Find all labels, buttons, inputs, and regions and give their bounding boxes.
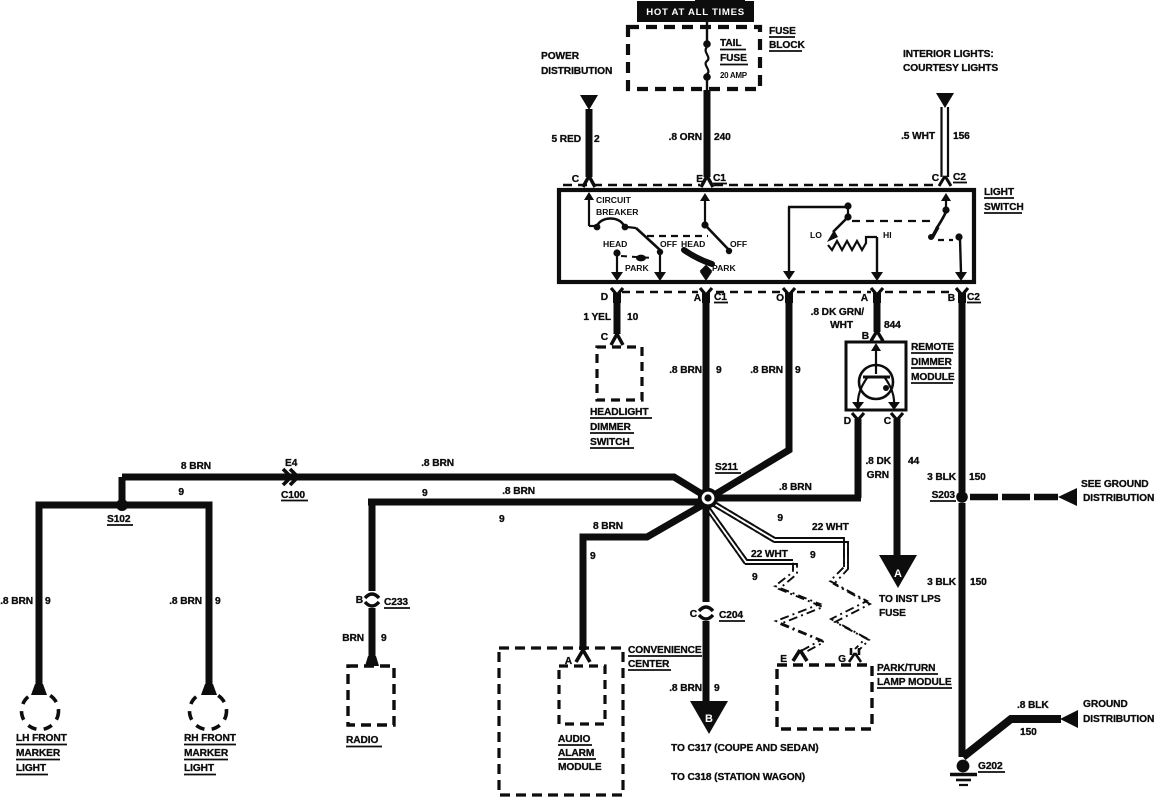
svg-text:ALARM: ALARM (558, 748, 594, 759)
interior lights courtesy lights label (903, 49, 998, 74)
svg-text:C233: C233 (384, 597, 408, 608)
output pin O (776, 288, 795, 304)
wire PARK to A C1 output (700, 272, 712, 281)
wire HI to A output (871, 237, 883, 281)
wire S102 to RH front marker light (122, 505, 221, 687)
splice node S211 overlay (698, 488, 718, 508)
svg-text:9: 9 (45, 596, 51, 607)
connector pin B (remote dimmer module) (862, 331, 883, 342)
svg-text:9: 9 (714, 683, 720, 694)
svg-text:D: D (844, 416, 851, 427)
svg-text:C2: C2 (967, 292, 980, 303)
interior lights switch blade (928, 212, 946, 240)
svg-text:1 YEL: 1 YEL (583, 312, 611, 323)
power distribution label (541, 51, 612, 77)
svg-text:9: 9 (215, 596, 221, 607)
svg-text:C: C (884, 416, 892, 427)
wire .5 WHT 156 (double line) (901, 107, 970, 177)
svg-text:C2: C2 (953, 172, 966, 183)
svg-text:.8 BRN: .8 BRN (669, 365, 702, 376)
svg-text:9: 9 (422, 488, 428, 499)
svg-text:PARK: PARK (712, 263, 737, 273)
svg-text:DIMMER: DIMMER (911, 357, 952, 368)
switch 2 pivot (701, 221, 708, 228)
ground G202 (950, 760, 1005, 785)
svg-text:BLOCK: BLOCK (769, 40, 805, 51)
svg-text:TAIL: TAIL (720, 38, 741, 49)
wire 22 WHT 9 (S211 to park/turn lamp module G) (712, 501, 870, 651)
wire from pin C1 into switch 2 (700, 193, 710, 223)
svg-text:D: D (601, 292, 608, 303)
output pin A C1 (694, 288, 728, 304)
svg-text:9: 9 (716, 365, 722, 376)
connector pin C C2 (932, 172, 967, 186)
svg-text:CONVENIENCE: CONVENIENCE (628, 645, 702, 656)
svg-text:C: C (572, 174, 580, 185)
svg-text:SEE GROUND: SEE GROUND (1081, 479, 1149, 490)
wire BRN 9 (C233 to radio) (342, 608, 387, 666)
hot at all times bus bar (637, 0, 754, 22)
svg-text:C100: C100 (281, 490, 305, 501)
tail fuse 20 amp (703, 22, 748, 90)
svg-text:20 AMP: 20 AMP (720, 71, 748, 80)
svg-text:LAMP MODULE: LAMP MODULE (877, 677, 952, 688)
svg-text:C1: C1 (713, 173, 726, 184)
svg-text:.8 DK: .8 DK (865, 456, 891, 467)
switch 2 OFF contact (726, 239, 747, 254)
wire .8 BLK 150 (to ground distribution) (963, 699, 1154, 757)
svg-text:MARKER: MARKER (184, 748, 229, 759)
svg-text:B: B (948, 293, 955, 304)
svg-text:22 WHT: 22 WHT (751, 549, 789, 560)
svg-text:22 WHT: 22 WHT (812, 522, 850, 533)
wire 8 BRN 9 (S211 to S102 via C100) (122, 458, 705, 499)
svg-text:156: 156 (953, 131, 970, 142)
svg-text:PARK/TURN: PARK/TURN (877, 663, 935, 674)
wire 3 BLK 150 (S203 to G202) (927, 503, 987, 757)
wire .8 BRN 9 (O down to S211) (711, 300, 801, 497)
svg-text:C204: C204 (719, 610, 743, 621)
wire .8 BRN 9 (S211 to remote dimmer D) (708, 482, 861, 524)
svg-text:.8 BRN: .8 BRN (669, 683, 702, 694)
switch 2 PARK contact (700, 263, 737, 277)
svg-text:PARK: PARK (625, 263, 650, 273)
rheostat wiper blade LO (810, 219, 846, 242)
switch 2 blade to OFF (706, 226, 728, 249)
convenience center box (499, 645, 702, 795)
splice node S211 (698, 462, 741, 508)
off-page connector B (690, 701, 728, 734)
wire remote dimmer D to S211 run (855, 419, 862, 498)
svg-text:BREAKER: BREAKER (596, 207, 639, 217)
svg-text:AUDIO: AUDIO (558, 734, 591, 745)
svg-text:8 BRN: 8 BRN (181, 461, 211, 472)
switch 1 HEAD contact (603, 239, 627, 257)
svg-text:POWER: POWER (541, 51, 580, 62)
wire contact to B C2 output (955, 239, 967, 281)
park/turn lamp module box (777, 663, 952, 729)
svg-text:C: C (601, 332, 609, 343)
output pin A (dimmer feed) (861, 288, 883, 304)
svg-text:O: O (776, 293, 784, 304)
wire 8 BRN 9 (S211 to audio alarm module) (583, 503, 706, 650)
svg-text:GRN: GRN (867, 470, 889, 481)
wire .8 ORN 240 (669, 90, 732, 177)
svg-text:B: B (862, 331, 869, 342)
svg-text:HEADLIGHT: HEADLIGHT (590, 407, 649, 418)
circuit breaker (589, 195, 639, 230)
svg-text:FUSE: FUSE (720, 53, 747, 64)
output pin B C2 (948, 288, 981, 304)
fuse block box (628, 26, 805, 89)
svg-text:S211: S211 (715, 462, 738, 473)
svg-text:150: 150 (970, 577, 987, 588)
svg-text:.8 DK GRN/: .8 DK GRN/ (811, 307, 865, 318)
svg-text:MODULE: MODULE (558, 762, 602, 773)
svg-text:BRN: BRN (342, 633, 364, 644)
svg-text:REMOTE: REMOTE (911, 342, 954, 353)
svg-text:44: 44 (908, 456, 920, 467)
switch 2 thick blade to PARK (684, 250, 712, 264)
svg-text:.8 BRN: .8 BRN (169, 596, 202, 607)
svg-text:.8 BRN: .8 BRN (421, 458, 454, 469)
interior lights feed arrow (936, 93, 954, 108)
wire HEAD contact to D output (611, 255, 623, 281)
svg-text:GROUND: GROUND (1083, 699, 1128, 710)
svg-text:9: 9 (752, 572, 758, 583)
svg-text:LIGHT: LIGHT (16, 763, 47, 774)
connector row dashed line (bottom of light switch) (622, 291, 955, 293)
audio alarm module box (558, 666, 605, 773)
wire O output up to dimmer rheostat (783, 207, 848, 280)
switch 1 blade (head/off/park) (636, 228, 660, 250)
svg-text:OFF: OFF (660, 239, 677, 249)
svg-text:E4: E4 (285, 458, 298, 469)
svg-text:.8 BRN: .8 BRN (502, 486, 535, 497)
svg-text:150: 150 (969, 472, 986, 483)
svg-text:240: 240 (714, 132, 731, 143)
radio box (346, 666, 394, 747)
svg-text:9: 9 (795, 365, 801, 376)
wire from pin C into circuit breaker (584, 192, 594, 226)
svg-text:LIGHT: LIGHT (984, 187, 1015, 198)
connector E4 C100 (281, 458, 308, 501)
wire .8 DK GRN 44 (remote dimmer C to inst lps fuse) (865, 419, 919, 557)
output pin D (601, 288, 623, 303)
svg-text:.8 BRN: .8 BRN (0, 596, 33, 607)
svg-text:9: 9 (777, 513, 783, 524)
connector pin G (park/turn lamp module) (838, 648, 861, 665)
svg-text:9: 9 (499, 514, 505, 525)
svg-text:DISTRIBUTION: DISTRIBUTION (541, 66, 612, 77)
svg-text:MODULE: MODULE (911, 372, 955, 383)
svg-text:COURTESY LIGHTS: COURTESY LIGHTS (903, 63, 998, 74)
svg-text:RADIO: RADIO (346, 735, 379, 746)
interior lights switch pivot (942, 206, 949, 213)
svg-text:DIMMER: DIMMER (590, 422, 631, 433)
svg-text:.5 WHT: .5 WHT (901, 131, 936, 142)
output pin D (remote dimmer module) (844, 413, 864, 427)
svg-text:A: A (894, 568, 902, 580)
svg-text:9: 9 (810, 550, 816, 561)
wire to ground distribution (dashed) (970, 479, 1154, 506)
switch 1 OFF contact (657, 239, 677, 255)
splice node S203 (930, 490, 968, 503)
svg-text:C: C (932, 173, 940, 184)
svg-text:B: B (356, 595, 363, 606)
wire .8 DK GRN/WHT 844 (A to remote dimmer module) (811, 300, 901, 332)
wire .8 BRN 9 (S211 to C204) (703, 503, 710, 602)
svg-text:.8 BRN: .8 BRN (750, 365, 783, 376)
connector pin A (audio alarm module) (565, 650, 590, 667)
svg-text:LIGHT: LIGHT (184, 763, 215, 774)
svg-text:C1: C1 (714, 292, 727, 303)
RH front marker light lamp (184, 684, 237, 775)
svg-text:LO: LO (810, 230, 822, 240)
wire 3 BLK 150 (B C2 to S203) (927, 300, 986, 492)
connector C C204 (690, 607, 745, 621)
splice node S102 (107, 477, 133, 525)
svg-text:9: 9 (178, 487, 184, 498)
rheostat resistor element (828, 230, 892, 250)
svg-text:TO INST LPS: TO INST LPS (879, 594, 941, 605)
svg-text:DISTRIBUTION: DISTRIBUTION (1083, 493, 1154, 504)
svg-text:CENTER: CENTER (628, 659, 670, 670)
power distribution arrow (580, 95, 598, 110)
rheostat input contacts (844, 202, 851, 220)
svg-text:LH FRONT: LH FRONT (16, 733, 68, 744)
wire S102 to LH front marker light (0, 505, 128, 687)
svg-text:OFF: OFF (730, 239, 747, 249)
svg-text:5 RED: 5 RED (551, 134, 581, 145)
svg-text:DISTRIBUTION: DISTRIBUTION (1083, 714, 1154, 725)
wire .8 BRN 9 (S211 to radio) (368, 486, 700, 591)
connector B C233 (356, 594, 410, 608)
svg-text:844: 844 (884, 320, 901, 331)
output pin C (remote dimmer module) (884, 413, 903, 427)
remote dimmer module box (846, 342, 955, 410)
svg-text:CIRCUIT: CIRCUIT (596, 195, 632, 205)
svg-text:RH FRONT: RH FRONT (184, 733, 237, 744)
svg-text:FUSE: FUSE (879, 608, 906, 619)
svg-text:A: A (861, 293, 869, 304)
svg-text:HOT AT ALL TIMES: HOT AT ALL TIMES (646, 7, 745, 18)
splice node S102 dot overlay (116, 499, 128, 511)
svg-text:9: 9 (381, 633, 387, 644)
gang dashed link dimmer-interior switch (852, 220, 934, 222)
transistor Q (remote dimmer module) (852, 343, 900, 410)
off-page connector A (to inst lps fuse) (879, 555, 941, 619)
connector pin E (park/turn lamp module) (780, 650, 807, 665)
wire .8 BRN 9 (C204 to off-page B) (669, 621, 720, 703)
svg-text:S102: S102 (107, 514, 131, 525)
svg-text:.8 BRN: .8 BRN (779, 482, 812, 493)
svg-text:A: A (694, 293, 702, 304)
svg-text:G202: G202 (978, 761, 1003, 772)
svg-text:INTERIOR LIGHTS:: INTERIOR LIGHTS: (903, 49, 994, 60)
connector pin C (light switch C at power feed) (572, 174, 595, 187)
svg-text:MARKER: MARKER (16, 748, 61, 759)
svg-text:150: 150 (1020, 727, 1037, 738)
connector row dashed line (top of light switch) (563, 184, 936, 186)
svg-text:9: 9 (590, 551, 596, 562)
svg-text:WHT: WHT (830, 320, 854, 331)
headlight dimmer switch box (590, 347, 652, 448)
connector pin C (headlight dimmer switch) (601, 332, 623, 345)
wire 5 RED 2 (551, 109, 600, 177)
svg-text:8 BRN: 8 BRN (593, 521, 623, 532)
gang dashed link switch1-switch2 (647, 235, 708, 237)
svg-text:S203: S203 (932, 490, 956, 501)
light switch box (559, 187, 1024, 282)
svg-text:C: C (690, 609, 698, 620)
svg-text:.8 BLK: .8 BLK (1017, 700, 1049, 711)
interior lights switch contact (938, 233, 963, 240)
svg-text:2: 2 (594, 134, 600, 145)
svg-text:.8 ORN: .8 ORN (669, 132, 702, 143)
svg-text:3 BLK: 3 BLK (927, 472, 957, 483)
svg-text:FUSE: FUSE (769, 26, 796, 37)
svg-text:SWITCH: SWITCH (590, 437, 630, 448)
wire .8 BRN 9 (A C1 down to S211) (669, 300, 722, 494)
wire 1 YEL 10 (D to headlight dimmer switch) (583, 300, 638, 334)
connector pin E C1 (696, 173, 727, 187)
svg-text:B: B (705, 713, 713, 725)
svg-text:10: 10 (627, 312, 639, 323)
svg-text:TO C318 (STATION WAGON): TO C318 (STATION WAGON) (671, 772, 805, 783)
svg-text:3 BLK: 3 BLK (927, 577, 957, 588)
svg-text:HEAD: HEAD (603, 239, 627, 249)
wire from pin C2 into interior lights switch (941, 193, 951, 208)
switch 1 PARK contact (621, 255, 652, 273)
wire 22 WHT 9 (S211 to park/turn lamp module E) (706, 507, 824, 653)
svg-text:SWITCH: SWITCH (984, 202, 1024, 213)
svg-text:HI: HI (883, 230, 892, 240)
LH front marker light lamp (16, 684, 68, 775)
svg-text:TO C317 (COUPE AND SEDAN): TO C317 (COUPE AND SEDAN) (671, 743, 819, 754)
wire OFF contact down (654, 254, 666, 281)
